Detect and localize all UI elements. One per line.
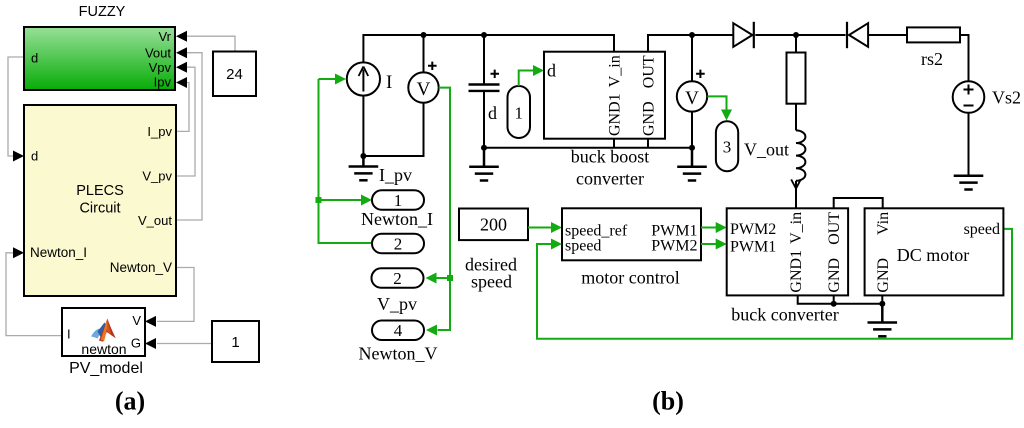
node: bottom net at V2	[689, 145, 695, 151]
svg-text:V: V	[685, 88, 699, 109]
svg-text:24: 24	[226, 66, 243, 83]
node: ground net at DC motor GND	[879, 301, 885, 307]
svg-text:GND1: GND1	[607, 93, 624, 136]
wire: GND stub (buck boost)	[647, 139, 649, 148]
arrow into d input	[533, 65, 544, 76]
node: green net at Newton_I branch	[316, 197, 322, 203]
ground (under V2)	[677, 148, 707, 181]
svg-text:converter: converter	[576, 169, 644, 189]
svg-text:Vin: Vin	[875, 212, 892, 235]
from tag 2 (duty)	[372, 234, 424, 254]
input arrow V (newton)	[145, 316, 156, 327]
arrow into Newton_I tag	[361, 195, 372, 206]
svg-text:1: 1	[231, 334, 239, 351]
node: meter wire at I	[360, 153, 366, 159]
wire Vr: constant 24 to FUZZY Vr	[186, 36, 235, 51]
svg-text:Ipv: Ipv	[154, 75, 172, 90]
wire: capacitor top stub	[483, 35, 485, 83]
svg-text:V_in: V_in	[788, 212, 805, 244]
resistor rs2	[907, 27, 960, 69]
DC motor block	[865, 208, 1004, 295]
wire: green vertical to from tags	[319, 79, 373, 243]
wire: green d wire to buck boost	[519, 71, 534, 87]
from tag 1 (Newton_I)	[372, 190, 424, 210]
goto tag 3 (V_out)	[716, 121, 738, 171]
diode D1	[733, 22, 754, 48]
svg-text:G: G	[131, 336, 141, 351]
goto tag 2 (V_pv)	[372, 268, 424, 288]
inductor L	[796, 130, 805, 180]
fuzzy controller block	[24, 27, 175, 90]
svg-text:1: 1	[394, 191, 403, 210]
wire: meter bottom wire (I to V1)	[363, 96, 423, 157]
motor control block	[562, 208, 701, 260]
arrow into V_out tag	[721, 110, 732, 121]
svg-text:GND: GND	[641, 101, 658, 136]
svg-text:motor control: motor control	[581, 268, 679, 288]
PLECS Circuit block	[24, 105, 176, 296]
current source I	[347, 62, 393, 95]
svg-text:I_pv: I_pv	[147, 124, 172, 139]
goto tag 1 (duty cycle)	[508, 86, 531, 138]
node: ground net at buck GND	[831, 301, 837, 307]
wire Ipv: PLECS I_pv to FUZZY Ipv	[176, 83, 189, 132]
node: top net at capacitor	[481, 32, 487, 38]
wire: speed feedback (DC motor speed to motor control)	[537, 229, 1012, 339]
voltage source Vs2	[953, 81, 1021, 113]
svg-text:(a): (a)	[115, 387, 145, 416]
svg-text:200: 200	[480, 215, 507, 235]
svg-text:4: 4	[394, 321, 403, 340]
wire: green V1 output vertical	[438, 88, 451, 330]
voltmeter V1	[408, 62, 438, 103]
input arrow d (PLECS)	[13, 151, 24, 162]
arrow into PWM1	[716, 239, 727, 250]
svg-text:(b): (b)	[652, 387, 684, 416]
constant 24	[213, 52, 256, 97]
svg-text:3: 3	[723, 138, 732, 157]
node: green net at V_pv branch	[447, 275, 453, 281]
wire: GND1 stub (buck boost)	[613, 139, 615, 148]
svg-text:2: 2	[394, 235, 403, 254]
svg-text:V_pv: V_pv	[377, 294, 417, 314]
svg-text:2: 2	[393, 269, 402, 288]
svg-text:Vr: Vr	[158, 29, 171, 44]
wire: green 200 to speed_ref	[528, 227, 552, 229]
svg-text:d: d	[547, 61, 556, 81]
svg-text:I: I	[67, 327, 71, 342]
wire: inductor arrow to V_in of buck converter	[795, 181, 797, 209]
wire: V2 stub	[691, 35, 693, 82]
ground (under current source)	[349, 156, 379, 180]
wire: green PWM2 to buck PWM1	[701, 243, 716, 245]
svg-text:V_in: V_in	[607, 55, 624, 87]
svg-text:Newton_I: Newton_I	[30, 245, 87, 260]
capacitor C	[469, 70, 500, 123]
wire: top net A (I source to V_in of buck boost)	[363, 35, 614, 62]
svg-text:OUT: OUT	[641, 55, 658, 88]
buck boost converter block	[544, 52, 665, 139]
MATLAB logo	[91, 319, 116, 342]
wire: top net B (OUT of buck boost to diodes and rs2)	[648, 35, 969, 81]
svg-text:OUT: OUT	[826, 212, 843, 245]
svg-text:V_out: V_out	[744, 140, 789, 160]
svg-text:V: V	[417, 79, 431, 100]
ground (under capacitor)	[469, 148, 499, 181]
svg-text:Vpv: Vpv	[149, 60, 172, 75]
svg-text:d: d	[31, 51, 38, 66]
diode D2	[847, 22, 868, 48]
wire: load resistor top stub	[795, 35, 797, 53]
svg-text:d: d	[31, 149, 38, 164]
inductor arrowhead	[791, 179, 801, 188]
arrow into PWM2	[716, 222, 727, 233]
wire: bottom net (cap to GND pins to V2)	[484, 147, 692, 149]
wire: OUT to Vin bridge	[834, 198, 883, 208]
svg-text:PWM2: PWM2	[730, 221, 776, 238]
input arrow Vout	[176, 47, 187, 58]
newton block (PV model)	[62, 308, 145, 357]
constant 200 (desired speed)	[459, 209, 528, 292]
svg-text:Newton_V: Newton_V	[359, 344, 438, 364]
svg-text:speed: speed	[964, 221, 1000, 238]
svg-text:Vout: Vout	[145, 45, 171, 60]
wire d: FUZZY d output to PLECS d input	[8, 57, 24, 156]
wire Vpv: PLECS V_pv to FUZZY Vpv	[176, 67, 195, 176]
wire: resistor to inductor	[795, 104, 797, 131]
wire: green branch to Newton_I tag	[319, 199, 362, 201]
wire: green PWM1 to buck PWM2	[701, 227, 716, 229]
ground (under DC motor)	[868, 304, 898, 337]
buck converter block	[727, 208, 848, 295]
input arrow Newton_I (PLECS)	[13, 247, 24, 258]
wire: Vs2 bottom to ground	[968, 113, 970, 176]
svg-text:speed: speed	[565, 237, 601, 254]
wire: green branch to V_pv tag	[437, 277, 451, 279]
svg-text:buck boost: buck boost	[571, 147, 650, 167]
svg-text:1: 1	[514, 104, 523, 123]
svg-text:V_pv: V_pv	[142, 169, 172, 184]
arrow into Newton_V tag	[426, 325, 437, 336]
svg-text:GND: GND	[875, 258, 892, 293]
svg-text:GND1: GND1	[788, 250, 805, 293]
svg-text:speed: speed	[471, 272, 512, 292]
wire: V2 bottom stub	[691, 112, 693, 148]
input arrow Ipv	[176, 77, 187, 88]
svg-text:I_pv: I_pv	[379, 165, 412, 185]
wire: ground net (buck GND1/GND to DC motor GND)	[798, 295, 883, 303]
node: bottom net at capacitor	[481, 145, 487, 151]
svg-text:PWM1: PWM1	[730, 239, 776, 256]
wire Vout: PLECS V_out to FUZZY Vout	[176, 53, 202, 220]
svg-text:newton: newton	[81, 341, 126, 357]
wire G: constant 1 to newton G	[157, 343, 212, 345]
svg-text:I: I	[386, 72, 392, 93]
svg-text:V_out: V_out	[138, 213, 172, 228]
svg-text:PWM2: PWM2	[651, 237, 697, 254]
node: top net at V1	[421, 32, 427, 38]
wire: green V2 to V_out tag	[707, 96, 726, 109]
svg-text:buck converter: buck converter	[731, 305, 838, 325]
svg-text:DC motor: DC motor	[897, 245, 970, 265]
svg-text:PV_model: PV_model	[69, 360, 143, 377]
svg-text:FUZZY: FUZZY	[79, 4, 126, 20]
svg-text:Vs2: Vs2	[992, 88, 1021, 108]
svg-text:V: V	[132, 313, 141, 328]
svg-text:GND: GND	[826, 258, 843, 293]
wire Newton_V: PLECS Newton_V to newton V	[157, 268, 194, 322]
arrow into speed_ref	[551, 222, 562, 233]
svg-text:rs2: rs2	[921, 49, 943, 69]
voltmeter V2	[677, 70, 707, 112]
svg-text:Newton_V: Newton_V	[110, 260, 172, 275]
svg-text:Newton_I: Newton_I	[361, 209, 433, 229]
wire I: newton I output to PLECS Newton_I	[6, 253, 62, 336]
arrow into speed input	[551, 239, 562, 250]
svg-text:PLECS: PLECS	[76, 183, 124, 199]
input arrow Vr	[176, 31, 187, 42]
input arrow G (newton)	[145, 338, 156, 349]
node: top net at V2	[689, 32, 695, 38]
goto tag 4 (Newton_V)	[372, 321, 424, 341]
input arrow Vpv	[176, 62, 187, 73]
node: top net at load resistor	[793, 32, 799, 38]
wire: V1 stub to top net	[423, 35, 425, 73]
arrow into V_pv tag	[426, 273, 437, 284]
wire: capacitor bottom stub	[483, 91, 485, 148]
svg-text:Circuit: Circuit	[79, 201, 120, 217]
wire: green I source input	[319, 78, 336, 80]
constant 1	[212, 321, 259, 362]
load resistor (vertical)	[787, 53, 806, 104]
svg-text:d: d	[488, 103, 497, 123]
arrow into I source	[335, 74, 346, 85]
ground (under Vs2)	[954, 176, 984, 190]
